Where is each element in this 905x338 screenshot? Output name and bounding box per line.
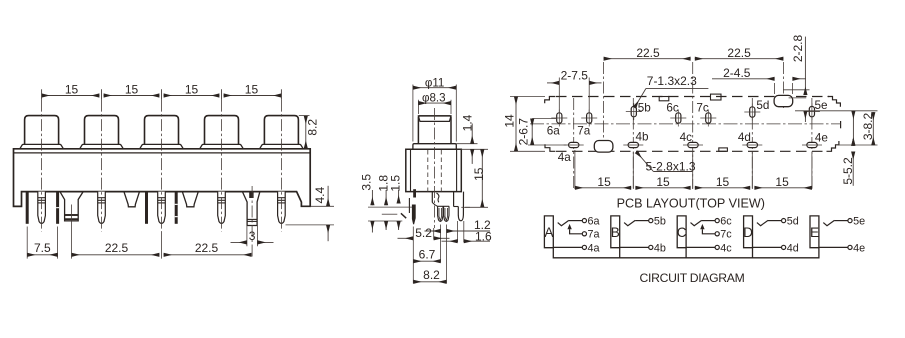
svg-text:4a: 4a xyxy=(558,151,572,164)
svg-text:A: A xyxy=(544,225,554,240)
svg-text:5-2.8x1.3: 5-2.8x1.3 xyxy=(645,159,695,173)
pcb corner mark bottom-right xyxy=(827,141,839,151)
black terminal pin B2 xyxy=(56,192,59,224)
contact pin under button 4 xyxy=(218,192,226,224)
svg-text:3: 3 xyxy=(249,229,256,243)
side view prong channel xyxy=(431,192,433,203)
svg-text:15: 15 xyxy=(65,83,79,97)
dimension 22.5 pcb left xyxy=(604,58,691,60)
svg-text:15: 15 xyxy=(245,83,259,97)
svg-text:15: 15 xyxy=(125,83,139,97)
pcb bottom dim extension lines xyxy=(574,150,576,189)
svg-text:8.2: 8.2 xyxy=(423,268,440,282)
centerline button 3 xyxy=(161,100,163,232)
dimension 1.4 extension lines xyxy=(456,143,477,145)
svg-text:CIRCUIT DIAGRAM: CIRCUIT DIAGRAM xyxy=(640,271,745,285)
pcb hole 4c xyxy=(688,142,698,147)
svg-text:15: 15 xyxy=(472,167,486,181)
circuit E contact 5e xyxy=(848,219,852,223)
side view centerline xyxy=(434,108,436,228)
pcb hole 4b xyxy=(628,142,638,147)
button flange 3 xyxy=(140,144,184,148)
dimension 1.5 xyxy=(398,190,400,204)
side view right foot xyxy=(458,192,463,221)
svg-text:1.5: 1.5 xyxy=(389,175,403,192)
dimension 1.4 xyxy=(471,124,473,144)
svg-text:B: B xyxy=(611,225,620,240)
pcb corner mark top-left xyxy=(545,97,556,104)
circuit common bus xyxy=(553,248,819,258)
circuit D contact 5d xyxy=(782,219,786,223)
button cap 3 xyxy=(145,116,179,145)
dimension 2-7.5 extension lines xyxy=(558,78,560,114)
pcb corner mark bottom-left xyxy=(545,144,555,151)
standoff S1 (wide lug) outline xyxy=(60,192,83,221)
circuit section A box xyxy=(544,216,553,248)
svg-text:7c: 7c xyxy=(696,102,709,115)
pcb top tab 1 xyxy=(659,97,669,101)
pcb hole 5e xyxy=(809,106,814,116)
side view left foot xyxy=(408,198,410,213)
circuit A latch arrow xyxy=(567,224,571,229)
button flange 5 xyxy=(260,144,304,148)
pcb section centerline A xyxy=(573,98,575,189)
centerline button 4 xyxy=(221,100,223,232)
pcb hole 5d xyxy=(750,107,755,117)
callout 5-2.8x1.3 xyxy=(653,171,692,173)
circuit A contact 7a xyxy=(582,232,586,236)
pcb section centerline D xyxy=(751,98,753,189)
svg-text:4d: 4d xyxy=(787,242,799,254)
centerline button 1 xyxy=(41,100,43,232)
body top plate line xyxy=(14,152,311,154)
circuit D switch lever xyxy=(757,220,768,225)
button cap 5 xyxy=(264,116,298,145)
svg-text:C: C xyxy=(677,225,687,240)
svg-text:5.2: 5.2 xyxy=(415,226,432,240)
pcb hole 6c xyxy=(676,113,681,123)
dimension 8.2 extension line xyxy=(299,115,310,117)
button cap 1 xyxy=(25,116,59,145)
dimension phi11 xyxy=(413,87,456,89)
svg-text:1.4: 1.4 xyxy=(461,114,475,131)
dimension 1.6 xyxy=(442,240,458,242)
circuit C contact 4c xyxy=(686,246,715,248)
button flange 4 xyxy=(200,144,244,148)
svg-text:7a: 7a xyxy=(577,124,591,137)
svg-text:5d: 5d xyxy=(756,99,769,112)
pcb hole 4e xyxy=(807,142,817,147)
svg-text:4.4: 4.4 xyxy=(313,187,327,204)
svg-text:φ8.3: φ8.3 xyxy=(422,92,446,105)
svg-text:15: 15 xyxy=(656,175,670,189)
svg-text:15: 15 xyxy=(716,175,730,189)
dimension 3-8.2 extension lines xyxy=(795,110,878,112)
pcb hole 7a xyxy=(587,113,592,123)
pin P3 black insert xyxy=(249,192,253,198)
svg-text:6.7: 6.7 xyxy=(419,247,436,261)
circuit A contact 4a xyxy=(553,246,582,248)
dimension 15 (button pitch) x4 lines xyxy=(42,95,100,97)
svg-text:5b: 5b xyxy=(638,101,652,114)
contact pin under button 5 xyxy=(278,192,286,224)
dimension 2-4.5 xyxy=(712,78,775,80)
svg-text:2-7.5: 2-7.5 xyxy=(561,69,589,83)
svg-text:φ11: φ11 xyxy=(425,77,445,90)
svg-text:15: 15 xyxy=(185,83,199,97)
svg-text:2-6.7: 2-6.7 xyxy=(517,118,531,146)
contact pin under button 3 xyxy=(158,192,166,224)
svg-text:4e: 4e xyxy=(853,242,865,254)
svg-text:22.5: 22.5 xyxy=(636,46,660,60)
svg-text:5-5.2: 5-5.2 xyxy=(841,157,855,185)
svg-text:15: 15 xyxy=(775,175,789,189)
circuit B contact 5b xyxy=(649,219,653,223)
side view cap xyxy=(418,116,451,144)
circuit C switch lever xyxy=(691,220,702,225)
dimension 8.2 xyxy=(305,116,307,149)
dimension 22.5 pcb right xyxy=(695,58,784,60)
side view foot seat line xyxy=(461,206,470,208)
side view hidden lines xyxy=(427,150,429,192)
standoff S2 trapezoid xyxy=(124,192,140,207)
svg-text:5e: 5e xyxy=(853,216,865,228)
dimension 1.2 xyxy=(425,230,441,232)
dimension 15 side xyxy=(481,149,483,207)
svg-text:7.5: 7.5 xyxy=(34,241,51,255)
svg-text:6a: 6a xyxy=(547,124,561,137)
contact pin under button 2 xyxy=(98,192,106,224)
contact pin under button 1 xyxy=(38,192,46,224)
dimension phi11 extension lines xyxy=(412,85,414,142)
side view right foot shelf xyxy=(453,192,455,207)
dimension 22.5 right xyxy=(164,254,252,256)
side view body inner walls xyxy=(410,149,412,191)
svg-text:PCB LAYOUT(TOP VIEW): PCB LAYOUT(TOP VIEW) xyxy=(617,197,765,211)
svg-text:7-1.3x2.3: 7-1.3x2.3 xyxy=(647,74,697,88)
front view: top dimension extension ticks xyxy=(41,89,43,99)
dimension 2-7.5 xyxy=(547,82,559,84)
pcb hole 6a xyxy=(557,113,562,123)
black terminal pin B4 xyxy=(175,192,178,224)
svg-text:3-8.2: 3-8.2 xyxy=(861,113,875,141)
dimension 2-2.8 xyxy=(804,37,806,95)
svg-text:4c: 4c xyxy=(680,131,693,144)
svg-text:D: D xyxy=(743,225,753,240)
pcb section centerline C xyxy=(692,62,694,189)
pcb big hole 1 centerline xyxy=(603,62,605,152)
side bottom extension lines xyxy=(412,227,414,284)
dimension 5-5.2 xyxy=(852,139,854,146)
dimension 3-8.2 xyxy=(852,111,854,146)
svg-text:E: E xyxy=(810,225,819,240)
circuit section E box xyxy=(810,216,819,248)
centerline button 2 xyxy=(101,100,103,232)
pcb hole 4d xyxy=(747,142,757,147)
dimension 15 extension line xyxy=(465,206,488,208)
svg-text:22.5: 22.5 xyxy=(727,46,751,60)
svg-text:6a: 6a xyxy=(588,216,600,228)
dimension 14 xyxy=(515,97,517,152)
svg-text:4b: 4b xyxy=(635,130,649,143)
circuit D contact 4d xyxy=(753,246,782,248)
button cap 2 xyxy=(85,116,119,145)
side view flange xyxy=(413,144,456,150)
centerline S1 xyxy=(71,205,73,259)
circuit E contact 4e xyxy=(819,246,848,248)
pcb hole 4a xyxy=(569,142,579,147)
circuit C contact 6c xyxy=(715,219,719,223)
dimension 14 extension lines xyxy=(510,96,545,98)
svg-text:22.5: 22.5 xyxy=(195,241,219,255)
side view body xyxy=(406,149,462,191)
dimension 7.5 xyxy=(27,254,57,256)
pcb corner mark top-right xyxy=(828,97,841,107)
dimension 5.2 xyxy=(398,237,414,239)
svg-text:3.5: 3.5 xyxy=(359,174,373,191)
svg-text:2-4.5: 2-4.5 xyxy=(723,66,751,80)
centerline P3 xyxy=(251,186,253,258)
pcb right edge tick xyxy=(840,121,842,128)
pcb bottom tab xyxy=(719,148,728,151)
pcb dimension 15 x4 xyxy=(575,187,631,189)
svg-text:5b: 5b xyxy=(654,216,666,228)
dimension 3 xyxy=(231,241,247,243)
side foot extension lines xyxy=(368,206,412,208)
circuit C latch arrow xyxy=(700,224,704,229)
pin P3 (3mm lug) outline xyxy=(242,192,260,226)
svg-text:5e: 5e xyxy=(814,99,827,112)
pcb hole 5b xyxy=(631,106,636,116)
dimension 2-6.7 extension lines xyxy=(532,118,556,120)
svg-text:4e: 4e xyxy=(815,132,828,145)
dimension 3.5 xyxy=(371,190,373,205)
button flange 1 xyxy=(20,144,64,148)
pcb section centerline B xyxy=(632,98,634,189)
button cap 4 xyxy=(205,116,239,145)
svg-text:14: 14 xyxy=(503,114,517,128)
pcb outline top edge xyxy=(556,96,829,98)
dimension 2-4.5 extension lines xyxy=(774,83,776,94)
svg-text:15: 15 xyxy=(597,175,611,189)
extension line B1 xyxy=(26,227,28,259)
svg-text:22.5: 22.5 xyxy=(105,241,129,255)
extension line B2 xyxy=(57,227,59,259)
svg-text:8.2: 8.2 xyxy=(305,119,319,136)
circuit A contact 6a xyxy=(582,219,586,223)
circuit C contact 7c xyxy=(715,232,719,236)
dimension 6.7 xyxy=(413,260,440,262)
svg-text:6c: 6c xyxy=(720,216,732,228)
svg-text:6c: 6c xyxy=(666,102,679,115)
dimension 2-2.8 extension lines xyxy=(783,89,809,91)
black terminal pin B1 xyxy=(26,192,29,224)
centerline button 5 xyxy=(280,100,282,232)
circuit B switch lever xyxy=(624,220,635,225)
dimension phi8.3 extension lines xyxy=(417,100,419,114)
dimension phi8.3 xyxy=(418,102,451,104)
extension line pin3 center xyxy=(161,232,163,259)
standoff S3 trapezoid xyxy=(182,192,198,207)
dimension 22.5 left xyxy=(72,254,160,256)
circuit section D box xyxy=(744,216,753,248)
svg-text:4d: 4d xyxy=(738,131,751,144)
pcb big hole 2 centerline xyxy=(782,62,784,108)
svg-text:4a: 4a xyxy=(588,242,600,254)
dimension 4.4 xyxy=(327,186,329,207)
pcb section centerline E xyxy=(811,98,813,189)
svg-text:2-2.8: 2-2.8 xyxy=(791,35,805,63)
dimension 4.4 extension lines xyxy=(310,205,334,207)
circuit E switch lever xyxy=(823,220,834,225)
pcb hole 7c xyxy=(706,113,711,123)
pcb top tab 2 xyxy=(711,94,722,100)
dimension 3 extension lines xyxy=(246,226,248,247)
pcb horizontal centerline xyxy=(530,123,841,125)
circuit B contact 4b xyxy=(620,246,649,248)
dimension 2-6.7 xyxy=(531,119,533,146)
side view prong 1 xyxy=(438,206,443,221)
circuit A switch lever xyxy=(558,220,569,225)
side view cap top band xyxy=(418,116,451,122)
pcb big hole H2 xyxy=(774,95,793,106)
svg-text:4c: 4c xyxy=(720,242,732,254)
callout 7-1.3x2.3 xyxy=(646,87,708,89)
dimension 1.8 xyxy=(385,190,387,205)
circuit section C box xyxy=(677,216,686,248)
circuit section B box xyxy=(611,216,620,248)
svg-text:7c: 7c xyxy=(720,229,732,241)
svg-text:1.6: 1.6 xyxy=(475,229,492,243)
pcb big hole H1 xyxy=(594,141,613,153)
svg-text:4b: 4b xyxy=(654,242,666,254)
side view prong 2 xyxy=(444,206,449,221)
svg-text:7a: 7a xyxy=(588,229,600,241)
switch body outline xyxy=(14,149,311,207)
svg-text:5d: 5d xyxy=(787,216,799,228)
button flange 2 xyxy=(80,144,124,148)
dimension 8.2 bottom xyxy=(413,281,446,283)
black terminal pin B3 xyxy=(145,192,148,224)
pcb outline bottom edge xyxy=(556,150,823,152)
